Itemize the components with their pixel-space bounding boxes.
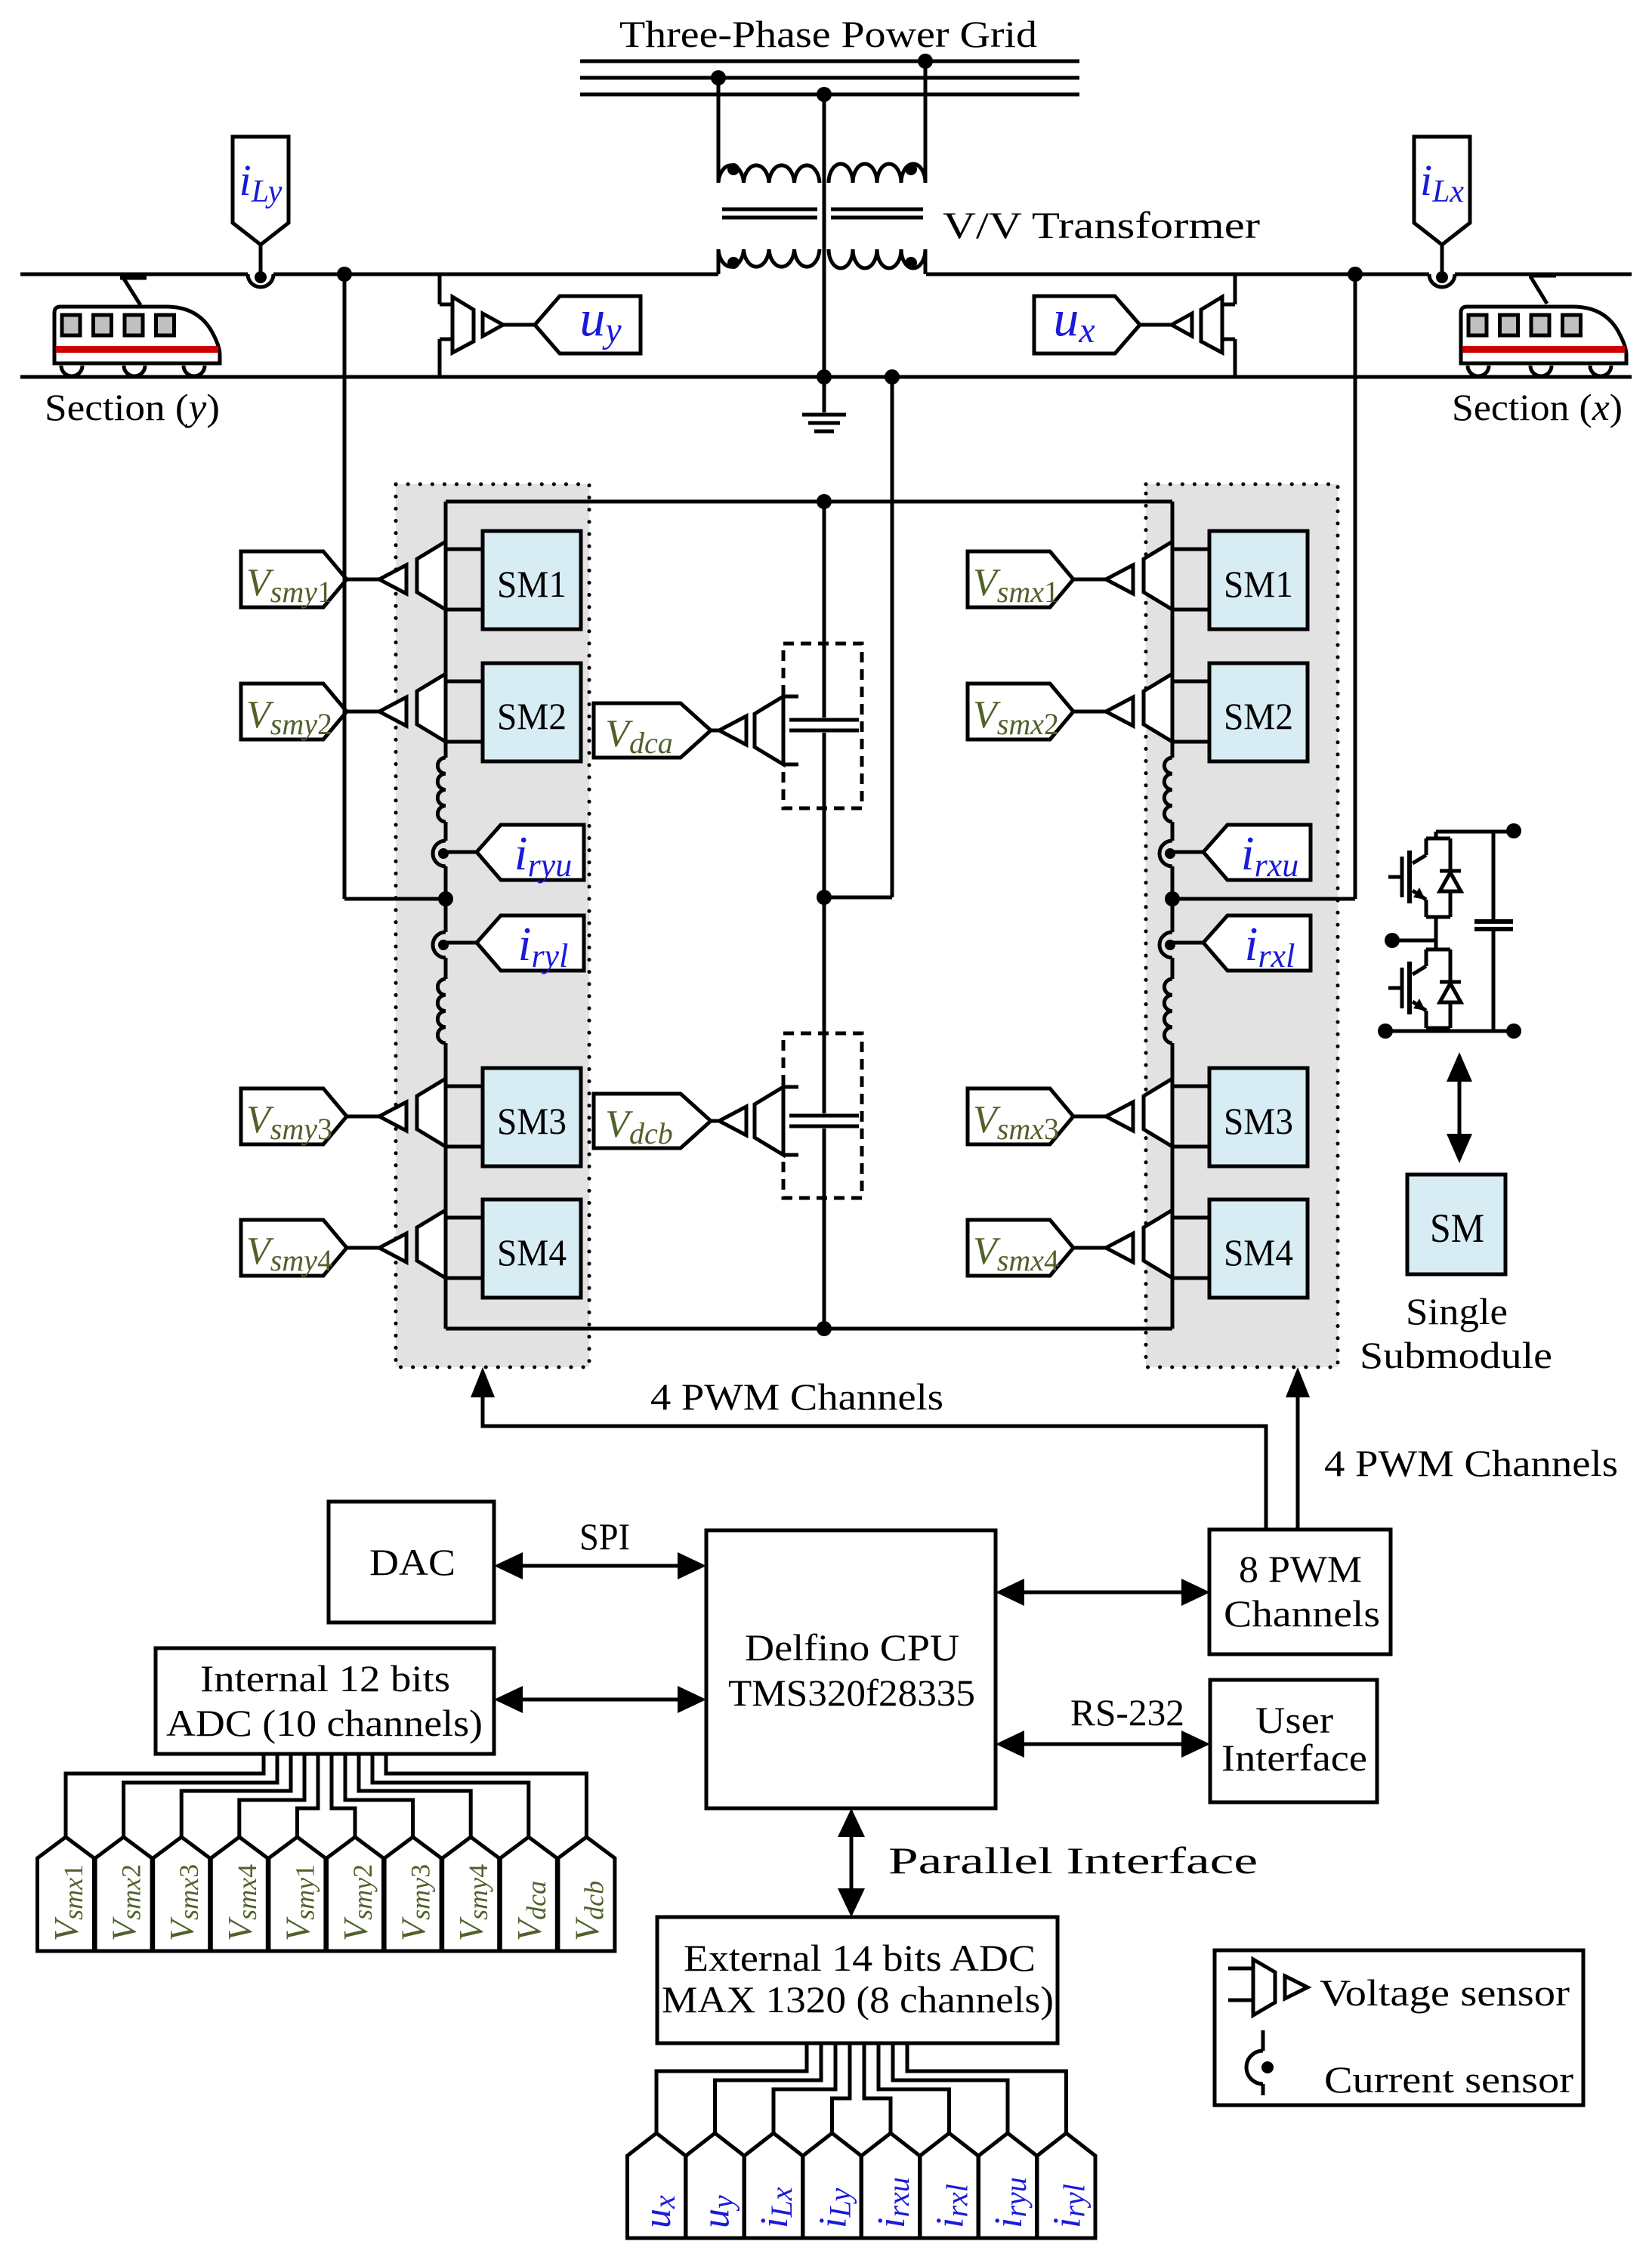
current sensor iryl [433,932,446,958]
wire iLy flag lead [259,245,263,272]
bus SPI DAC-CPU [521,1564,679,1568]
wire external ADC input iryl [907,2043,1067,2133]
voltage sensor Vsmy4 transducer [417,1210,446,1278]
node DC bottom bus / capacitor b [817,1321,832,1336]
wire Vsmx2 flag lead [1073,710,1106,714]
wire Vsmx1 flag lead [1073,578,1106,582]
wire Vsmx1 stubs to SM box [1172,548,1209,551]
flag iLy (ADC input) [803,2133,861,2238]
wire Vsmy2 flag lead [347,710,379,714]
node x arm midpoint [1165,891,1180,906]
node rail ground tap [817,369,832,384]
IGBT Q1 [1425,838,1428,855]
wire uy flag lead [503,323,535,327]
wire rail neutral to DC mid point [891,377,894,897]
wire catenary-x tap to arm midpoint [1354,274,1357,899]
inductor y upper arm [437,758,446,822]
voltage sensor Vsmx1 amplifier [1106,565,1133,594]
svg-text:SM: SM [1430,1206,1484,1251]
current sensor iryu [433,841,446,866]
node grid-C [817,87,832,102]
svg-text:Delfino CPU: Delfino CPU [745,1626,959,1669]
wire y arm bottom [444,1043,448,1329]
current sensor iLx pickup [1429,274,1455,287]
transformer T2 secondary polarity dot [905,257,917,269]
block 8 PWM channels [1209,1530,1391,1654]
voltage sensor Vsmx4 transducer [1144,1210,1172,1278]
block external ADC [657,1917,1058,2043]
pantograph y [120,275,147,280]
wire external ADC input iLy [832,2043,851,2133]
transformer T2 core [831,208,923,211]
voltage sensor uy amplifier [483,313,503,336]
wire internal ADC input Vsmy4 [359,1754,471,1837]
voltage sensor Vdca amplifier [719,716,746,745]
transformer T1 secondary polarity dot [727,257,740,269]
inductor x lower arm [1164,979,1172,1043]
svg-text:SM4: SM4 [497,1231,567,1274]
train section x [1461,307,1626,363]
voltage sensor ux leads [1234,274,1237,304]
wire 4 PWM channels to y-side converter [483,1373,1266,1530]
flag Vsmy2 [241,684,347,739]
wire Vsmx4 flag lead [1073,1246,1106,1250]
wire internal ADC input Vdca [372,1754,529,1837]
flag Vsmx4 [968,1220,1073,1276]
svg-text:DAC: DAC [369,1541,455,1583]
transformer T1 primary winding (left) [718,165,820,183]
flag uy (ADC input) [686,2133,744,2238]
transformer T1 secondary winding (left) [718,249,820,267]
wire Vsmy2 stubs to SM box [446,680,483,684]
wire T2 secondary to section x catenary [924,249,928,274]
wire irxl lead [1172,941,1203,945]
flag Vsmy4 [241,1220,347,1276]
block Delfino CPU TMS320f28335 [706,1530,996,1808]
inductor x upper arm [1164,758,1172,822]
voltage sensor Vsmx2 transducer [1144,674,1172,742]
wire Vdca flag lead [711,729,719,733]
wire Vsmy1 stubs to SM box [446,548,483,551]
voltage sensor ux amplifier [1172,313,1192,336]
svg-text:SM2: SM2 [497,695,567,737]
bus internal ADC - CPU [521,1698,679,1702]
diode D2 [1449,949,1453,983]
wire Vsmy3 stubs to SM box [446,1085,483,1088]
wire Vsmx3 flag lead [1073,1115,1106,1119]
legend current sensor icon [1261,2030,1265,2051]
node catenary-y tap [337,267,352,282]
capacitor Cb enclosure (dashed) [783,1033,862,1198]
flag irxu (ADC input) [862,2133,920,2238]
submodule box SM3 (y) [483,1068,581,1166]
flag irxu [1203,825,1311,880]
wire external ADC input iryu [893,2043,1008,2133]
svg-text:4 PWM Channels: 4 PWM Channels [650,1375,943,1418]
svg-text:MAX 1320 (8 channels): MAX 1320 (8 channels) [662,1978,1054,2021]
capacitor Ca enclosure (dashed) [783,644,862,808]
flag Vdcb (ADC input) [558,1837,615,1951]
flag iryu (ADC input) [979,2133,1037,2238]
flag iLx (ADC input) [745,2133,803,2238]
capacitor Cb [789,1114,859,1118]
wire grid-C to transformer centre / ground [823,94,826,377]
node y arm midpoint [438,891,453,906]
converter y-side enclosure (dotted box) [396,484,589,1367]
svg-text:SM1: SM1 [1224,563,1293,605]
flag Vsmx2 [968,684,1073,739]
voltage sensor Vsmy2 amplifier [379,697,406,726]
flag Vsmx3 [968,1088,1073,1144]
flag Vdcb [594,1094,711,1148]
IGBT Q2 emitter bar [1426,1027,1450,1030]
pantograph x [1529,273,1556,278]
wire x arm [1171,822,1175,841]
svg-text:SM1: SM1 [497,563,567,605]
svg-text:Parallel Interface: Parallel Interface [888,1839,1258,1882]
voltage sensor uy leads [438,274,442,304]
converter x-side enclosure (dotted box) [1146,484,1338,1367]
wire Vsmx3 stubs to SM box [1172,1085,1209,1088]
current sensor iLy pickup [248,274,273,287]
block internal ADC [156,1648,494,1754]
voltage sensor Vsmy1 transducer [417,542,446,610]
flag Vsmx4 (ADC input) [211,1837,267,1951]
svg-text:SM4: SM4 [1224,1231,1293,1274]
node submodule AC terminal [1385,933,1400,948]
block DAC [329,1502,494,1622]
svg-text:ADC (10 channels): ADC (10 channels) [166,1702,483,1744]
wire internal ADC input Vsmx1 [66,1754,264,1837]
node submodule negative terminal [1378,1023,1393,1039]
wire internal ADC input Vsmy1 [297,1754,318,1837]
svg-text:SM2: SM2 [1224,695,1293,737]
wire external ADC input ux [656,2043,807,2133]
voltage sensor Vsmy1 amplifier [379,565,406,594]
voltage sensor Vdcb leads [783,1085,798,1089]
bus parallel interface CPU - external ADC [850,1835,854,1890]
svg-text:TMS320f28335: TMS320f28335 [728,1672,975,1714]
flag Vsmx2 (ADC input) [95,1837,152,1951]
grid phase line C [580,93,1079,97]
wire catenary section y [20,273,248,276]
svg-text:4 PWM Channels: 4 PWM Channels [1324,1442,1618,1484]
svg-text:Current sensor: Current sensor [1324,2058,1573,2101]
flag Vsmy1 (ADC input) [269,1837,326,1951]
wire rail (return) line [20,375,1632,379]
flag Vdca [594,703,711,758]
flag Vsmy3 [241,1088,347,1144]
voltage sensor Vsmy4 amplifier [379,1233,406,1262]
wire Vsmy1 flag lead [347,578,379,582]
voltage sensor Vsmy2 transducer [417,674,446,742]
wire Vsmy4 flag lead [347,1246,379,1250]
submodule box SM1 (x) [1209,531,1308,629]
voltage sensor Vsmx4 amplifier [1106,1233,1133,1262]
bus CPU - 8 PWM channels [1023,1591,1183,1595]
wire x arm bottom [1171,1043,1175,1329]
wire external ADC input irxl [878,2043,950,2133]
wire y arm lower [444,958,448,979]
wire iryu lead [446,851,477,854]
wire DC bottom bus [446,1327,1172,1331]
wire x arm mid [1171,866,1175,932]
node catenary-x tap [1348,267,1363,282]
svg-text:Submodule: Submodule [1360,1334,1552,1376]
wire AC terminal lead [1392,939,1436,943]
flag iryl (ADC input) [1037,2133,1095,2238]
submodule box SM3 (x) [1209,1068,1308,1166]
flag uy [535,296,641,353]
wire y arm upper [444,502,448,758]
wire grid-B to transformer primary left [717,78,721,183]
wire Vdcb flag lead [711,1119,719,1123]
IGBT Q1 emitter bar [1426,915,1450,919]
wire DC capacitor branch [823,502,826,718]
svg-text:V/V Transformer: V/V Transformer [943,204,1260,246]
flag Vsmx3 (ADC input) [153,1837,210,1951]
wire internal ADC input Vdcb [386,1754,586,1837]
svg-text:RS-232: RS-232 [1070,1691,1184,1734]
svg-text:Section (x): Section (x) [1452,386,1623,428]
wire DC top bus [446,500,1172,504]
transformer T1 core [722,208,817,211]
submodule box SM2 (y) [483,663,581,761]
voltage sensor Vdcb amplifier [719,1107,746,1135]
voltage sensor Vsmx2 amplifier [1106,697,1133,726]
IGBT Q2 collector bar [1426,948,1450,952]
wire x arm upper [1171,502,1175,758]
capacitor Ca [789,718,859,722]
flag irxl [1203,915,1311,971]
voltage sensor uy transducer [452,297,474,353]
svg-text:User: User [1255,1699,1333,1741]
flag iryu [477,825,584,880]
flag ux (ADC input) [628,2133,686,2238]
node DC mid point [817,890,832,905]
flag iLx [1414,137,1470,245]
wire Vsmx2 stubs to SM box [1172,680,1209,684]
flag Vsmx1 [968,551,1073,607]
wire iLx flag lead [1440,245,1444,272]
svg-text:Single: Single [1406,1290,1508,1332]
svg-text:Internal 12 bits: Internal 12 bits [200,1657,450,1700]
wire external ADC input irxu [864,2043,891,2133]
submodule box SM4 (x) [1209,1199,1308,1298]
single submodule top rail [1436,830,1514,834]
voltage sensor Vdcb transducer [755,1087,783,1155]
wire y arm [444,822,448,841]
transformer T1 primary polarity dot [727,163,740,175]
voltage sensor Vdca leads [783,695,798,699]
wire internal ADC input Vsmx3 [181,1754,291,1837]
IGBT Q1 collector bar [1434,832,1438,838]
node grid-A [918,54,933,69]
wire x arm lower [1171,958,1175,979]
flag irxl (ADC input) [920,2133,978,2238]
flag iLy [233,137,289,245]
bus RS-232 CPU - user interface [1023,1743,1183,1746]
wire internal ADC input Vsmy3 [345,1754,413,1837]
wire external ADC input iLx [774,2043,835,2133]
wire catenary-y tap to arm midpoint [343,274,347,899]
ground [823,377,826,412]
inductor y lower arm [437,979,446,1043]
submodule box SM (detail) [1407,1175,1505,1274]
flag Vsmy1 [241,551,347,607]
current sensor irxu [1159,841,1172,866]
svg-text:SM3: SM3 [1224,1100,1293,1142]
submodule box SM4 (y) [483,1199,581,1298]
submodule box SM1 (y) [483,531,581,629]
node submodule capacitor negative [1506,1023,1521,1039]
wire 4 PWM channels to x-side converter [1296,1373,1300,1530]
wire internal ADC input Vsmy2 [332,1754,355,1837]
arrow submodule to SM box [1458,1073,1462,1141]
wire ux flag lead [1140,323,1172,327]
grid phase line B [580,76,1079,80]
svg-text:Channels: Channels [1224,1592,1380,1635]
wire internal ADC input Vsmx2 [124,1754,277,1837]
voltage sensor Vsmx3 transducer [1144,1079,1172,1147]
grid phase line A [580,60,1079,63]
flag iryl [477,915,584,971]
wire external ADC input uy [715,2043,822,2133]
transformer T2 primary polarity dot [905,163,917,175]
block user interface [1210,1680,1377,1802]
svg-text:External 14 bits ADC: External 14 bits ADC [684,1937,1036,1979]
wire grid-A to transformer primary right [924,61,928,183]
voltage sensor Vsmy3 transducer [417,1079,446,1147]
legend box [1215,1950,1583,2105]
svg-text:Interface: Interface [1221,1737,1367,1779]
svg-text:Voltage sensor: Voltage sensor [1320,1971,1570,2014]
submodule capacitor C [1492,832,1496,922]
svg-text:SPI: SPI [579,1515,630,1558]
current sensor irxl [1159,932,1172,958]
wire submodule bottom rail [1434,1028,1438,1031]
wire Vsmy3 flag lead [347,1115,379,1119]
voltage sensor Vsmx3 amplifier [1106,1102,1133,1131]
svg-text:Three-Phase Power Grid: Three-Phase Power Grid [619,13,1037,55]
wire iryl lead [446,941,477,945]
voltage sensor ux transducer [1201,297,1222,353]
flag ux [1034,296,1140,353]
node submodule positive terminal [1506,823,1521,838]
wire submodule midpoint [1434,917,1438,949]
voltage sensor Vdca transducer [755,696,783,764]
flag Vsmx1 (ADC input) [38,1837,94,1951]
node rail neutral tap [885,369,900,384]
svg-text:Section (y): Section (y) [45,386,220,428]
wire Vsmy4 stubs to SM box [446,1216,483,1220]
flag Vdca (ADC input) [500,1837,557,1951]
transformer T2 secondary winding (right) [829,249,925,268]
submodule box SM2 (x) [1209,663,1308,761]
flag Vsmy4 (ADC input) [443,1837,499,1951]
flag Vsmy2 (ADC input) [327,1837,384,1951]
flag Vsmy3 (ADC input) [384,1837,441,1951]
svg-text:8 PWM: 8 PWM [1239,1548,1362,1590]
wire catenary section x [926,273,1429,276]
transformer T2 primary winding (right) [829,164,925,183]
wire Vsmx4 stubs to SM box [1172,1216,1209,1220]
legend voltage sensor icon [1228,1967,1253,1971]
svg-text:SM3: SM3 [497,1100,567,1142]
wire T1 secondary to section y catenary [717,249,721,274]
wire irxu lead [1172,851,1203,854]
train section y [54,307,220,363]
node grid-B [711,70,726,85]
node DC top bus / capacitor a [817,494,832,509]
diode D1 [1449,838,1453,872]
IGBT Q2 [1425,949,1428,966]
wire y arm mid [444,866,448,932]
voltage sensor Vsmx1 transducer [1144,542,1172,610]
voltage sensor Vsmy3 amplifier [379,1102,406,1131]
wire internal ADC input Vsmx4 [239,1754,304,1837]
